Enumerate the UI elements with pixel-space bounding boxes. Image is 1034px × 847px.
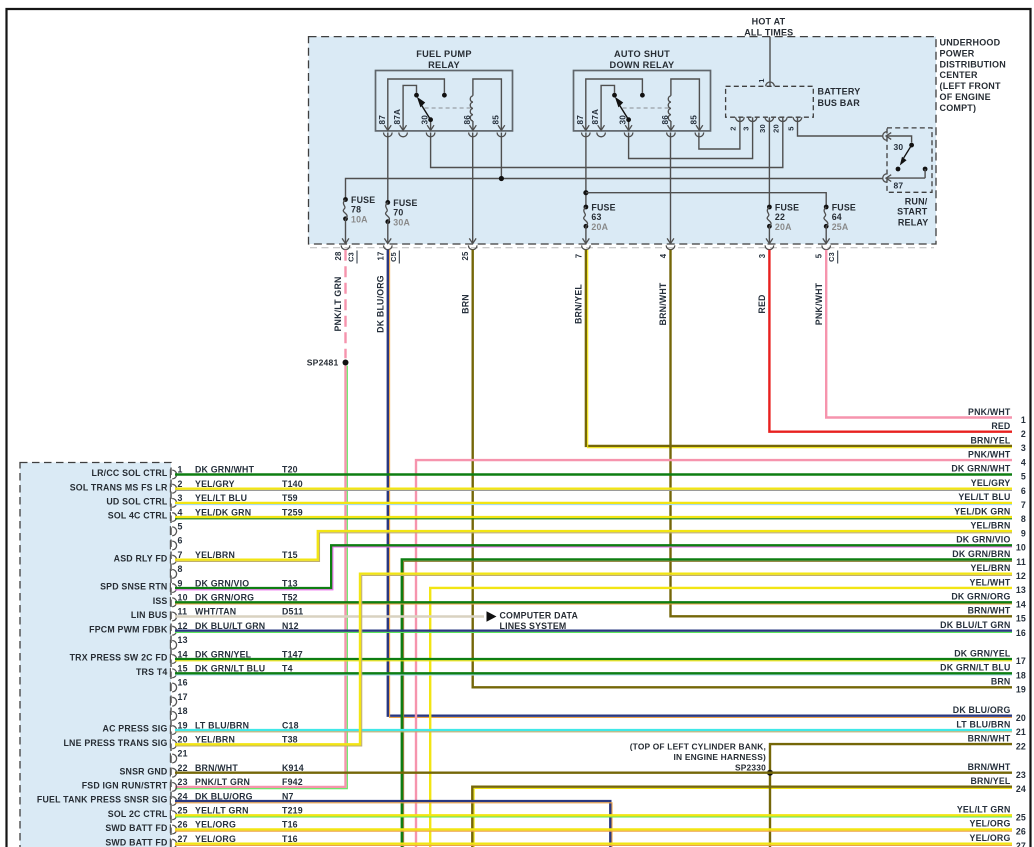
PCM pin 22 connector bracket: [170, 768, 176, 778]
svg-text:87A: 87A: [591, 109, 600, 125]
svg-text:SOL 4C CTRL: SOL 4C CTRL: [108, 511, 168, 521]
svg-text:C3: C3: [827, 252, 836, 262]
svg-text:22: 22: [178, 763, 188, 773]
svg-text:7: 7: [1021, 500, 1026, 510]
junction ASD87 branch: [583, 190, 588, 195]
wire fuse 70 to exit 17: [387, 222, 389, 244]
svg-text:T16: T16: [282, 820, 298, 830]
UPDC exit pin 5: [815, 238, 838, 263]
svg-text:SWD BATT FD: SWD BATT FD: [105, 837, 167, 847]
svg-text:ISS: ISS: [153, 596, 168, 606]
svg-text:64: 64: [832, 212, 842, 222]
right row 25 label YEL/LT GRN: [957, 805, 1026, 823]
svg-text:YEL/ORG: YEL/ORG: [195, 834, 236, 844]
svg-text:4: 4: [1021, 457, 1026, 467]
svg-text:16: 16: [178, 678, 188, 688]
svg-text:26: 26: [1016, 827, 1026, 837]
wire DK BLU/LT GRN pin 12 to right row 16: [175, 631, 1012, 633]
UPDC exit pin 25: [461, 238, 477, 260]
PCM pin 23 connector bracket: [170, 782, 176, 792]
fuel pump relay: [376, 49, 513, 137]
PCM pin 10 connector bracket: [170, 597, 176, 607]
wire fuel relay pin 87 down to fuse 70: [387, 133, 389, 203]
svg-text:WHT/TAN: WHT/TAN: [195, 607, 236, 617]
svg-text:BRN/YEL: BRN/YEL: [574, 284, 584, 324]
fuse 22: [767, 203, 799, 233]
wire DK GRN/LT BLU pin 15 to right row 18: [175, 673, 1012, 675]
PCM pin 1 connector bracket: [170, 469, 176, 479]
svg-text:YEL/ORG: YEL/ORG: [195, 820, 236, 830]
svg-text:BUS BAR: BUS BAR: [818, 98, 861, 108]
svg-text:25: 25: [461, 251, 470, 261]
computer data lines system note: [487, 611, 579, 631]
svg-text:85: 85: [689, 115, 698, 125]
svg-text:BRN/WHT: BRN/WHT: [968, 762, 1011, 772]
svg-text:70: 70: [393, 208, 403, 218]
wire bus pin 5 to run/start relay pin 30: [798, 117, 884, 136]
svg-text:LT BLU/BRN: LT BLU/BRN: [195, 720, 249, 730]
UPDC exit pin 17: [376, 238, 399, 263]
right row 11 label DK GRN/BRN: [952, 549, 1026, 567]
right row 5 label DK GRN/WHT: [951, 464, 1026, 482]
svg-text:1: 1: [178, 465, 183, 475]
svg-text:SWD BATT FD: SWD BATT FD: [105, 823, 167, 833]
right row 17 label DK GRN/YEL: [954, 648, 1026, 666]
svg-text:YEL/LT GRN: YEL/LT GRN: [195, 806, 249, 816]
svg-text:PNK/LT GRN: PNK/LT GRN: [333, 276, 343, 331]
right row 9 label YEL/BRN: [970, 521, 1026, 539]
svg-text:FUSE: FUSE: [393, 198, 417, 208]
PCM pin 22 wire name BRN/WHT K914: [195, 763, 304, 773]
svg-text:RUN/: RUN/: [905, 197, 928, 207]
svg-text:BRN/WHT: BRN/WHT: [195, 763, 238, 773]
wire branch to fuse 64: [586, 193, 826, 207]
svg-text:25A: 25A: [832, 222, 849, 232]
right row 14 label DK GRN/ORG: [951, 592, 1026, 610]
wire YEL/GRY pin 2 to right row 6: [175, 489, 1012, 491]
svg-text:DK BLU/ORG: DK BLU/ORG: [195, 791, 253, 801]
wire WHT/TAN pin 11 to computer data lines arrow: [175, 615, 484, 617]
svg-text:POWER: POWER: [940, 48, 975, 58]
svg-text:4: 4: [178, 507, 183, 517]
PCM pin 15 connector bracket: [170, 668, 176, 678]
svg-text:19: 19: [1016, 685, 1026, 695]
PCM connector box: [20, 463, 171, 847]
svg-text:YEL/BRN: YEL/BRN: [970, 563, 1010, 573]
svg-text:DK GRN/LT BLU: DK GRN/LT BLU: [940, 663, 1010, 673]
svg-text:26: 26: [178, 820, 188, 830]
svg-text:D511: D511: [282, 607, 303, 617]
UPDC exit pin 28: [334, 238, 357, 263]
svg-text:1: 1: [757, 78, 766, 82]
svg-text:T13: T13: [282, 578, 298, 588]
wire DK GRN/WHT pin 1 to right row 5: [175, 473, 1012, 475]
PCM pin 13 connector bracket: [170, 640, 176, 650]
svg-text:21: 21: [178, 749, 188, 759]
svg-text:YEL/LT BLU: YEL/LT BLU: [195, 493, 247, 503]
svg-text:17: 17: [1016, 656, 1026, 666]
PCM pin 12 connector bracket: [170, 626, 176, 636]
PCM pin 4 connector bracket: [170, 512, 176, 522]
right row 23 label BRN/WHT: [968, 762, 1026, 780]
svg-text:T15: T15: [282, 550, 298, 560]
PCM pin 26 connector bracket: [170, 824, 176, 834]
PCM pin 17 connector bracket: [170, 697, 176, 707]
svg-text:T140: T140: [282, 479, 303, 489]
svg-text:15: 15: [178, 664, 188, 674]
right row 13 label YEL/WHT: [970, 577, 1026, 595]
svg-text:LNE PRESS TRANS SIG: LNE PRESS TRANS SIG: [63, 738, 167, 748]
PCM pin 18 connector bracket: [170, 711, 176, 721]
svg-text:FUEL TANK PRESS SNSR SIG: FUEL TANK PRESS SNSR SIG: [37, 795, 168, 805]
PCM pin 1 wire name DK GRN/WHT T20: [195, 465, 298, 475]
svg-text:HOT AT: HOT AT: [752, 16, 786, 26]
label BATTERY BUS BAR: [818, 87, 861, 108]
svg-text:28: 28: [334, 251, 343, 261]
PCM pin 11 connector bracket: [170, 611, 176, 621]
wire PNK/WHT right row 4 from bottom of page: [416, 460, 1012, 847]
svg-text:63: 63: [591, 212, 601, 222]
PCM pin 24 connector bracket: [170, 796, 176, 806]
wire DK GRN/ORG pin 10 to right row 14: [175, 602, 1012, 604]
svg-text:2: 2: [178, 479, 183, 489]
svg-text:30: 30: [894, 142, 904, 152]
right row 7 label YEL/LT BLU: [958, 492, 1026, 510]
svg-text:YEL/BRN: YEL/BRN: [195, 550, 235, 560]
PCM pin 14 wire name DK GRN/YEL T147: [195, 649, 303, 659]
right row 3 label BRN/YEL: [970, 435, 1026, 453]
svg-text:16: 16: [1016, 628, 1026, 638]
PCM pin 8 connector bracket: [170, 569, 176, 579]
svg-text:3: 3: [741, 126, 750, 130]
svg-text:15: 15: [1016, 614, 1026, 624]
svg-text:DK GRN/WHT: DK GRN/WHT: [951, 464, 1011, 474]
wire RED from exit 3 to right row 2: [757, 250, 1012, 432]
svg-text:21: 21: [1016, 727, 1026, 737]
wire BRN/WHT pin 22 to right row 23 through SP2330: [175, 772, 1012, 774]
svg-text:23: 23: [178, 777, 188, 787]
svg-text:7: 7: [574, 254, 583, 259]
svg-text:10A: 10A: [351, 215, 368, 225]
svg-text:14: 14: [1016, 599, 1026, 609]
wire YEL/ORG pin 26 to right row 26: [175, 830, 1012, 832]
wire DK GRN/BRN right row 11 from bottom of page: [402, 560, 1012, 847]
bus bar pin 2: [729, 117, 745, 130]
run/start relay: [883, 128, 932, 192]
svg-text:F942: F942: [282, 777, 303, 787]
svg-text:T219: T219: [282, 806, 303, 816]
right row 8 label YEL/DK GRN: [954, 506, 1026, 524]
svg-text:COMPT): COMPT): [940, 103, 977, 113]
svg-text:3: 3: [178, 493, 183, 503]
wire DK BLU/ORG pin 24 down off page: [175, 801, 612, 847]
svg-text:PNK/WHT: PNK/WHT: [814, 282, 824, 325]
svg-text:YEL/GRY: YEL/GRY: [195, 479, 235, 489]
svg-text:27: 27: [178, 834, 188, 844]
svg-text:YEL/ORG: YEL/ORG: [970, 819, 1011, 829]
fuse 78: [343, 195, 375, 225]
svg-text:SP2481: SP2481: [307, 358, 339, 368]
PCM pin 20 connector bracket: [170, 739, 176, 749]
svg-text:PNK/WHT: PNK/WHT: [968, 407, 1011, 417]
PCM pin 23 wire name PNK/LT GRN F942: [195, 777, 303, 787]
junction feed line / fuel 85: [499, 176, 504, 181]
right row 10 label DK GRN/VIO: [956, 535, 1026, 553]
right row 4 label PNK/WHT: [968, 450, 1026, 468]
svg-text:LR/CC SOL CTRL: LR/CC SOL CTRL: [92, 468, 168, 478]
svg-text:87: 87: [894, 180, 904, 190]
fuse 70: [385, 198, 417, 228]
right row 18 label DK GRN/LT BLU: [940, 663, 1026, 681]
svg-text:YEL/LT BLU: YEL/LT BLU: [958, 492, 1010, 502]
wire DK GRN/YEL pin 14 to right row 17: [175, 659, 1012, 661]
wire run/start relay pin 87 feed line: [346, 179, 884, 200]
wire fuse 22 to exit 3: [768, 226, 770, 244]
svg-text:BRN/YEL: BRN/YEL: [970, 776, 1010, 786]
svg-text:6: 6: [178, 536, 183, 546]
wire YEL/ORG pin 27 to right row 27: [175, 844, 1012, 846]
svg-text:30: 30: [758, 124, 767, 133]
UPDC exit pin 3: [758, 238, 774, 258]
svg-text:TRS T4: TRS T4: [136, 667, 168, 677]
svg-text:YEL/BRN: YEL/BRN: [970, 521, 1010, 531]
svg-text:30: 30: [619, 115, 628, 125]
svg-text:86: 86: [463, 115, 472, 125]
svg-text:N7: N7: [282, 791, 294, 801]
PCM pin 25 connector bracket: [170, 810, 176, 820]
svg-text:T259: T259: [282, 507, 303, 517]
svg-text:FUEL PUMP: FUEL PUMP: [416, 49, 472, 59]
wire YEL/DK GRN pin 4 to right row 8: [175, 517, 1012, 519]
PCM pin 15 wire name DK GRN/LT BLU T4: [195, 664, 293, 674]
svg-text:T20: T20: [282, 465, 298, 475]
PCM pin 21 connector bracket: [170, 753, 176, 763]
svg-text:9: 9: [1021, 528, 1026, 538]
wire YEL/LT BLU pin 3 to right row 7: [175, 503, 1012, 505]
svg-text:DK GRN/VIO: DK GRN/VIO: [195, 578, 249, 588]
svg-text:11: 11: [178, 607, 188, 617]
svg-text:RED: RED: [991, 421, 1010, 431]
wire from HOT AT ALL TIMES to battery bus bar pin 1: [769, 37, 771, 87]
wire BRN/WHT splice SP2330 riser to right row 22: [770, 744, 1012, 847]
PCM pin 2 wire name YEL/GRY T140: [195, 479, 303, 489]
fuse 63: [584, 203, 616, 233]
svg-text:24: 24: [178, 791, 188, 801]
PCM pin 9 wire name DK GRN/VIO T13: [195, 578, 298, 588]
svg-text:BRN/WHT: BRN/WHT: [658, 282, 668, 325]
svg-text:17: 17: [376, 251, 385, 260]
svg-text:30: 30: [421, 115, 430, 125]
wire YEL/LT GRN pin 25 to right row 25: [175, 815, 1012, 817]
svg-text:BRN: BRN: [991, 677, 1011, 687]
wire PNK/WHT from exit 5 to right row 1: [814, 250, 1012, 418]
svg-text:8: 8: [178, 564, 183, 574]
svg-text:2: 2: [729, 126, 738, 130]
bus bar pin 3: [741, 117, 757, 130]
svg-text:SNSR GND: SNSR GND: [119, 766, 167, 776]
right row 26 label YEL/ORG: [970, 819, 1027, 837]
label UNDERHOOD POWER DISTRIBUTION CENTER: [940, 38, 1006, 113]
svg-text:1: 1: [1021, 415, 1026, 425]
svg-text:ASD RLY FD: ASD RLY FD: [114, 553, 168, 563]
svg-text:25: 25: [178, 806, 188, 816]
wire fuse 63 to exit 7: [585, 226, 587, 244]
svg-text:2: 2: [1021, 429, 1026, 439]
wire YEL/BRN pin 7 riser to right row 9: [175, 531, 1012, 561]
wire BRN/YEL right row 24 from bottom of page: [472, 787, 1012, 847]
svg-text:20A: 20A: [775, 222, 792, 232]
svg-text:T147: T147: [282, 649, 303, 659]
wire bus pin 2 to ASD relay pin 85: [699, 117, 740, 149]
svg-text:YEL/LT GRN: YEL/LT GRN: [957, 805, 1011, 815]
svg-text:ALL TIMES: ALL TIMES: [744, 27, 793, 37]
wire YEL/WHT right row 13 from bottom of page: [430, 588, 1012, 847]
svg-text:T4: T4: [282, 664, 293, 674]
svg-text:DISTRIBUTION: DISTRIBUTION: [940, 59, 1006, 69]
wire PNK/LT GRN from SP2481 to PCM pin 23: [175, 366, 347, 789]
right row 1 label PNK/WHT: [968, 407, 1026, 425]
right row 12 label YEL/BRN: [970, 563, 1026, 581]
wire DK BLU/ORG from exit 17 to right row 20: [376, 250, 1013, 718]
UNDERHOOD POWER DISTRIBUTION CENTER box: [309, 37, 937, 244]
splice SP2330: [630, 741, 773, 775]
right row 27 label YEL/ORG: [970, 833, 1027, 847]
svg-text:BRN: BRN: [460, 294, 470, 314]
svg-text:DK GRN/BRN: DK GRN/BRN: [952, 549, 1010, 559]
wire bus pin 30 down to fuse 22: [768, 117, 770, 207]
svg-text:11: 11: [1016, 557, 1026, 567]
svg-text:78: 78: [351, 205, 361, 215]
svg-text:87A: 87A: [393, 109, 402, 125]
svg-text:T59: T59: [282, 493, 298, 503]
splice SP2481: [307, 358, 349, 368]
svg-text:PNK/LT GRN: PNK/LT GRN: [195, 777, 250, 787]
svg-text:DK GRN/ORG: DK GRN/ORG: [195, 593, 254, 603]
svg-text:DK BLU/ORG: DK BLU/ORG: [376, 275, 386, 333]
PCM pin 25 wire name YEL/LT GRN T219: [195, 806, 303, 816]
label HOT AT ALL TIMES: [744, 16, 793, 37]
svg-text:UD SOL CTRL: UD SOL CTRL: [106, 497, 168, 507]
svg-text:13: 13: [1016, 585, 1026, 595]
PCM pin 16 connector bracket: [170, 682, 176, 692]
svg-text:YEL/WHT: YEL/WHT: [970, 577, 1011, 587]
bus bar pin 20: [772, 117, 788, 133]
svg-text:3: 3: [758, 253, 767, 258]
svg-text:SP2330: SP2330: [735, 762, 766, 772]
faint connector dashed line below UPDC: [310, 247, 934, 249]
right row 2 label RED: [991, 421, 1026, 439]
svg-text:AUTO SHUT: AUTO SHUT: [614, 49, 670, 59]
wire ASD relay pin 86 down to exit 4: [670, 133, 672, 244]
svg-text:OF ENGINE: OF ENGINE: [940, 92, 991, 102]
right row 19 label BRN: [991, 677, 1026, 695]
svg-text:DK GRN/ORG: DK GRN/ORG: [951, 592, 1010, 602]
PCM pin 9 connector bracket: [170, 583, 176, 593]
PCM pin 24 wire name DK BLU/ORG N7: [195, 791, 294, 801]
svg-text:DOWN RELAY: DOWN RELAY: [610, 60, 675, 70]
svg-text:AC PRESS SIG: AC PRESS SIG: [103, 724, 168, 734]
wire DK GRN/VIO pin 9 riser to right row 10: [175, 545, 1012, 590]
battery bus bar: [726, 86, 814, 117]
svg-text:T38: T38: [282, 735, 298, 745]
svg-text:FUSE: FUSE: [591, 203, 615, 213]
svg-text:10: 10: [178, 593, 188, 603]
PCM pin 26 wire name YEL/ORG T16: [195, 820, 298, 830]
svg-text:DK BLU/LT GRN: DK BLU/LT GRN: [195, 621, 265, 631]
fuse 64: [824, 203, 856, 233]
svg-text:FUSE: FUSE: [775, 203, 799, 213]
svg-text:START: START: [897, 207, 928, 217]
svg-text:YEL/ORG: YEL/ORG: [970, 833, 1011, 843]
wire BRN from exit 25 to right row 19: [460, 250, 1012, 688]
svg-text:7: 7: [178, 550, 183, 560]
svg-text:6: 6: [1021, 486, 1026, 496]
svg-text:SOL TRANS MS FS LR: SOL TRANS MS FS LR: [70, 482, 168, 492]
svg-text:86: 86: [661, 115, 670, 125]
svg-text:N12: N12: [282, 621, 299, 631]
svg-text:(TOP OF LEFT CYLINDER BANK,: (TOP OF LEFT CYLINDER BANK,: [630, 741, 766, 751]
svg-text:19: 19: [178, 720, 188, 730]
svg-text:20: 20: [772, 124, 781, 133]
wire fuse 78 to exit 28: [345, 219, 347, 244]
right row 15 label BRN/WHT: [968, 606, 1026, 624]
svg-text:T52: T52: [282, 593, 298, 603]
svg-text:5: 5: [815, 253, 824, 258]
svg-text:3: 3: [1021, 443, 1026, 453]
svg-text:87: 87: [378, 115, 387, 125]
wire BRN/YEL from exit 7 to right row 3: [574, 250, 1012, 448]
PCM pin 5 connector bracket: [170, 526, 176, 536]
svg-text:RED: RED: [757, 294, 767, 313]
svg-text:14: 14: [178, 649, 188, 659]
svg-text:PNK/WHT: PNK/WHT: [968, 450, 1011, 460]
svg-text:UNDERHOOD: UNDERHOOD: [940, 38, 1001, 48]
PCM pin 11 wire name WHT/TAN D511: [195, 607, 303, 617]
PCM pin 19 connector bracket: [170, 725, 176, 735]
svg-text:18: 18: [1016, 670, 1026, 680]
svg-text:DK GRN/YEL: DK GRN/YEL: [195, 649, 252, 659]
right row 24 label BRN/YEL: [970, 776, 1026, 794]
svg-text:FPCM PWM FDBK: FPCM PWM FDBK: [89, 624, 168, 634]
wire bus pin 20 to fuel pump relay pin 30: [431, 117, 783, 167]
svg-text:25: 25: [1016, 812, 1026, 822]
svg-text:DK GRN/YEL: DK GRN/YEL: [954, 648, 1011, 658]
svg-text:YEL/DK GRN: YEL/DK GRN: [195, 507, 251, 517]
svg-text:22: 22: [775, 212, 785, 222]
svg-text:8: 8: [1021, 514, 1026, 524]
PCM pin 7 connector bracket: [170, 555, 176, 565]
right row 6 label YEL/GRY: [971, 478, 1026, 496]
svg-text:DK GRN/WHT: DK GRN/WHT: [195, 465, 255, 475]
PCM pin 6 connector bracket: [170, 540, 176, 550]
svg-text:5: 5: [178, 522, 183, 532]
PCM pin 3 connector bracket: [170, 498, 176, 508]
PCM pin 14 connector bracket: [170, 654, 176, 664]
bus bar pin 5: [786, 117, 802, 130]
wire fuse 64 to exit 5: [825, 226, 827, 244]
svg-text:(LEFT FRONT: (LEFT FRONT: [940, 81, 1001, 91]
svg-text:COMPUTER DATA: COMPUTER DATA: [500, 611, 579, 621]
PCM pin 20 wire name YEL/BRN T38: [195, 735, 298, 745]
svg-text:LINES SYSTEM: LINES SYSTEM: [500, 621, 567, 631]
PCM pin 3 wire name YEL/LT BLU T59: [195, 493, 298, 503]
svg-text:18: 18: [178, 706, 188, 716]
svg-text:20: 20: [1016, 713, 1026, 723]
svg-text:BRN/WHT: BRN/WHT: [968, 734, 1011, 744]
svg-text:FSD IGN RUN/STRT: FSD IGN RUN/STRT: [82, 781, 168, 791]
svg-text:20: 20: [178, 735, 188, 745]
PCM pin 10 wire name DK GRN/ORG T52: [195, 593, 298, 603]
